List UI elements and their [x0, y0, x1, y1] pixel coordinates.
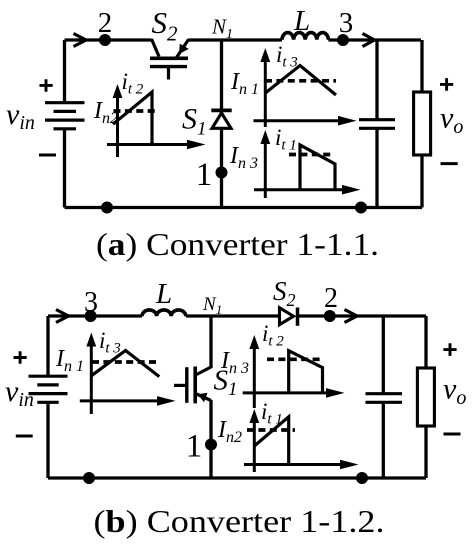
diode S2 (circuit b) [280, 308, 298, 326]
plot b1 axes (i_t3 waveform) [80, 333, 176, 415]
arrow on wire b top-left [56, 310, 69, 323]
wire b: left vertical upper [46, 316, 49, 376]
svg-text:it 1: it 1 [275, 125, 297, 154]
plot b1 waveform triangle [91, 351, 159, 377]
label plus vin (circuit a) [40, 79, 53, 92]
wire b: right vertical lower [424, 426, 427, 478]
label minus vin (circuit b) [16, 435, 33, 438]
wire a: left vertical upper [63, 40, 66, 102]
plot a2 dashed level In1 [265, 79, 336, 83]
svg-text:L: L [293, 5, 310, 37]
wire a: top-left segment to S2 [65, 38, 152, 41]
wire b: bottom [48, 476, 426, 479]
node 3 dot [337, 34, 349, 46]
plot b3 waveform ramp [254, 417, 288, 465]
label minus vin (circuit a) [39, 154, 56, 157]
svg-text:vo: vo [443, 373, 466, 410]
wire a: capacitor branch lower [375, 128, 378, 207]
wire b: N1 branch lower [209, 400, 212, 478]
wire b: top between L and diode S2 [186, 314, 279, 317]
wire a: right vertical upper [420, 40, 423, 92]
svg-text:vin: vin [6, 98, 35, 134]
svg-text:1: 1 [196, 157, 213, 193]
svg-text:2: 2 [324, 283, 338, 314]
label minus vo (circuit a) [441, 162, 458, 165]
wire b: N1 branch upper [209, 316, 212, 368]
bottom junction dot left (circuit a) [101, 202, 113, 214]
svg-text:it 2: it 2 [122, 69, 144, 98]
node 2 dot [99, 34, 111, 46]
node 3 dot (circuit b) [85, 310, 97, 322]
svg-text:N1: N1 [202, 294, 222, 317]
load resistor vo (circuit a) [414, 92, 431, 155]
label plus vin (circuit b) [14, 351, 27, 364]
plot b1 dashed level In1 [92, 360, 158, 364]
diode S1 (circuit a) [211, 110, 231, 128]
svg-text:L: L [155, 278, 172, 310]
node 2 dot (circuit b) [324, 310, 336, 322]
svg-text:vin: vin [5, 375, 34, 411]
svg-text:1: 1 [186, 429, 203, 465]
plot a2 axes (i_t3 waveform) [254, 48, 357, 127]
svg-text:S1: S1 [182, 103, 207, 140]
plot a1 dashed level In2 [114, 109, 159, 113]
inductor L (circuit a) [282, 33, 328, 40]
plot b3 axes (i_t1 waveform) [244, 409, 359, 472]
battery vin (circuit a) [45, 103, 85, 129]
svg-text:In 1: In 1 [230, 69, 259, 98]
wire a: left vertical lower [63, 129, 66, 208]
transistor S1 (IGBT, vertical, circuit b) [174, 367, 211, 404]
wire a: below diode to bottom [220, 128, 223, 207]
wire b: capacitor branch upper [382, 316, 385, 393]
svg-text:N1: N1 [211, 15, 233, 43]
svg-text:(a) Converter 1-1.1.: (a) Converter 1-1.1. [96, 226, 379, 262]
wire b: right vertical upper [424, 316, 427, 368]
svg-text:In2: In2 [93, 98, 118, 127]
arrow on wire a top-left [74, 34, 87, 47]
label plus vo (circuit b) [443, 343, 456, 356]
plot b2 axes (i_t2 waveform) [243, 335, 345, 408]
bottom junction dot left (circuit b) [83, 472, 95, 484]
node 1 dot (circuit a) [216, 167, 228, 179]
svg-text:2: 2 [98, 7, 113, 39]
load resistor vo (circuit b) [417, 368, 434, 426]
wire b: left vertical lower [46, 402, 49, 478]
svg-text:it 3: it 3 [276, 42, 298, 71]
plot b2 dashed level In3 [267, 357, 324, 361]
plot b3 dashed level In2 [247, 428, 295, 432]
svg-text:it 3: it 3 [99, 328, 121, 357]
plot a1 waveform ramp [113, 92, 152, 145]
svg-text:(b) Converter 1-1.2.: (b) Converter 1-1.2. [94, 503, 385, 539]
svg-text:In 1: In 1 [55, 346, 84, 375]
plot a3 waveform trapezoid [300, 145, 335, 190]
plot a3 dashed level In3 [289, 153, 332, 157]
svg-text:vo: vo [440, 102, 463, 139]
plot b2 waveform trapezoid [289, 351, 323, 393]
wire a: capacitor branch upper [375, 40, 378, 119]
wire a: bottom [65, 206, 423, 209]
svg-text:S2: S2 [152, 5, 179, 46]
node 1 dot (circuit b) [205, 439, 217, 451]
plot a3 axes (i_t1 waveform) [254, 130, 361, 198]
label plus vo (circuit a) [440, 78, 453, 91]
arrow on wire b after node 2 [345, 310, 358, 323]
svg-text:S2: S2 [273, 276, 296, 310]
wire b: capacitor branch lower [382, 402, 385, 478]
svg-text:In 3: In 3 [229, 143, 258, 172]
bottom junction dot right (circuit a) [355, 202, 367, 214]
inductor L (circuit b) [142, 310, 186, 316]
transistor S2 (IGBT, horizontal) [150, 39, 189, 80]
wire b: top after diode to right corner [297, 314, 427, 317]
label minus vo (circuit b) [444, 433, 461, 436]
svg-text:In2: In2 [217, 417, 242, 446]
bottom junction dot right (circuit b) [356, 472, 368, 484]
arrow on wire a after node 3 [363, 34, 375, 47]
svg-text:it 1: it 1 [261, 399, 283, 428]
wire a: N1 branch to diode [220, 40, 223, 113]
wire b: top-left segment to L [48, 314, 142, 317]
svg-text:3: 3 [339, 7, 354, 39]
battery vin (circuit b) [29, 376, 68, 402]
plot a2 waveform triangle [265, 66, 336, 96]
svg-text:3: 3 [84, 287, 98, 318]
capacitor (circuit b) [366, 394, 403, 403]
svg-text:In 3: In 3 [220, 348, 249, 377]
wire a: top after L to right corner [328, 38, 421, 41]
capacitor (circuit a) [359, 120, 395, 129]
plot a1 axes (i_t2 waveform) [107, 84, 206, 157]
wire a: top between S2 and L [188, 38, 282, 41]
wire a: right vertical lower [420, 155, 423, 208]
